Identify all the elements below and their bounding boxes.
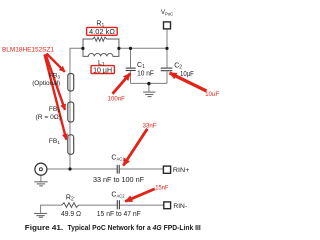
- svg-text:10uF: 10uF: [205, 91, 219, 98]
- svg-text:100nF: 100nF: [108, 95, 125, 102]
- svg-text:RIN-: RIN-: [173, 203, 187, 210]
- svg-text:VPoC: VPoC: [161, 10, 173, 16]
- svg-text:15nF: 15nF: [155, 184, 168, 191]
- svg-text:10 µH: 10 µH: [93, 67, 112, 74]
- svg-text:RIN+: RIN+: [173, 167, 190, 174]
- svg-text:33nF: 33nF: [143, 122, 157, 129]
- svg-text:Figure 41.: Figure 41.: [25, 223, 63, 232]
- svg-text:15 nF to 47 nF: 15 nF to 47 nF: [97, 211, 141, 218]
- svg-text:Typical PoC Network for a 4G F: Typical PoC Network for a 4G FPD-Link II…: [68, 223, 201, 232]
- svg-text:BLM18HE152SZ1: BLM18HE152SZ1: [2, 47, 54, 54]
- svg-text:(Optional): (Optional): [32, 80, 60, 87]
- svg-text:10µF: 10µF: [180, 71, 194, 78]
- svg-text:(R = 0Ω): (R = 0Ω): [36, 114, 62, 121]
- svg-text:49.9 Ω: 49.9 Ω: [61, 211, 81, 218]
- svg-text:10 nF: 10 nF: [137, 70, 154, 77]
- svg-text:4.02 kΩ: 4.02 kΩ: [89, 29, 115, 36]
- svg-text:33 nF to 100 nF: 33 nF to 100 nF: [93, 177, 144, 184]
